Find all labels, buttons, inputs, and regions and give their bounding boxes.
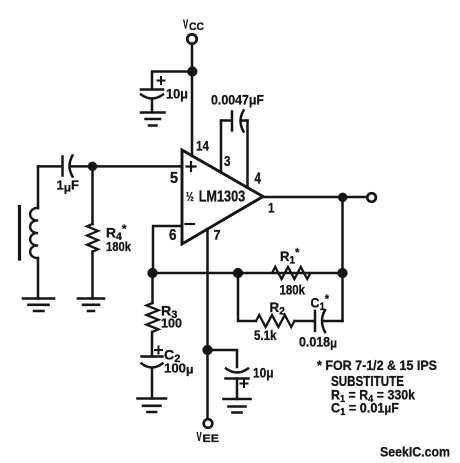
- wire VCC down to pin 14: [191, 44, 194, 156]
- wire pin 6 to feedback: [153, 226, 182, 273]
- svg-text:14: 14: [196, 138, 209, 154]
- wire output: [263, 196, 367, 199]
- resistor R1 180k: [272, 267, 310, 279]
- svg-text:* FOR 7-1/2 & 15 IPS: * FOR 7-1/2 & 15 IPS: [317, 358, 437, 374]
- svg-text:SeekIC.com: SeekIC.com: [380, 445, 450, 460]
- svg-text:0.0047μF: 0.0047μF: [211, 93, 264, 108]
- svg-text:V: V: [183, 18, 189, 32]
- plus sign of C2: [155, 347, 162, 354]
- resistor R3 100: [147, 303, 159, 332]
- plus sign of VEE 10u: [241, 380, 248, 387]
- wire feedback horizontal: [153, 272, 343, 275]
- svg-text:CC: CC: [189, 21, 204, 33]
- node input junction: [88, 162, 97, 171]
- resistor R4 180k: [87, 224, 98, 252]
- wire cap to pin 5: [71, 165, 183, 168]
- svg-text:4: 4: [255, 171, 262, 188]
- plus input marking: [187, 162, 196, 171]
- svg-text:R1*: R1*: [280, 246, 300, 267]
- svg-text:0.018μ: 0.018μ: [299, 335, 337, 351]
- svg-text:10μ: 10μ: [253, 366, 274, 381]
- node output junction: [338, 193, 347, 202]
- wire right rail vertical: [341, 197, 344, 321]
- wire VCC junction to bypass cap: [152, 72, 192, 90]
- capacitor C1 0.018u: [315, 310, 325, 332]
- ground under C2: [138, 399, 167, 413]
- input wire left segment: [38, 165, 62, 168]
- svg-text:180k: 180k: [106, 239, 132, 254]
- capacitor C2 100u: [142, 357, 163, 399]
- terminal VEE: [204, 419, 213, 428]
- svg-text:5.1k: 5.1k: [254, 328, 277, 343]
- node VCC junction: [187, 67, 197, 77]
- head gap bar: [18, 207, 21, 260]
- node pin7 junction: [203, 345, 213, 355]
- wire coil to ground: [37, 258, 40, 299]
- svg-text:LM1303: LM1303: [199, 189, 246, 206]
- capacitor 10u VCC bypass: [141, 88, 163, 91]
- svg-text:5: 5: [170, 170, 178, 187]
- svg-text:EE: EE: [203, 433, 220, 445]
- wire R2 to C1: [295, 320, 314, 323]
- svg-text:7: 7: [214, 227, 221, 243]
- terminal output: [367, 193, 376, 202]
- inductor L1 head coil: [30, 208, 38, 258]
- svg-text:1μF: 1μF: [57, 178, 80, 195]
- ground under coil: [23, 299, 54, 312]
- capacitor 0.0047uF between pin 3 and pin 4: [221, 111, 248, 132]
- ground under VEE 10u: [224, 399, 251, 413]
- node R1 right junction: [338, 268, 348, 278]
- wire R3 top: [151, 273, 154, 303]
- node feedback left junction: [148, 268, 158, 278]
- wire pin 7 down to VEE: [206, 229, 209, 419]
- ground under bypass cap: [141, 113, 165, 126]
- wire R3 to C2: [151, 332, 154, 357]
- svg-text:½: ½: [186, 190, 194, 204]
- svg-text:R2: R2: [270, 299, 286, 318]
- wire R2 branch left: [238, 273, 256, 321]
- node R1 left junction: [233, 268, 243, 278]
- svg-text:6: 6: [169, 227, 177, 244]
- svg-text:3: 3: [224, 153, 231, 170]
- svg-text:V: V: [197, 430, 203, 444]
- svg-text:1: 1: [268, 200, 275, 216]
- svg-text:180k: 180k: [280, 282, 306, 298]
- wire pin 4: [246, 121, 249, 188]
- op-amp U1 1/2 LM1303: [182, 150, 263, 244]
- resistor R2 5.1k: [256, 315, 294, 327]
- wire R4 to ground: [91, 252, 94, 299]
- wire pin 3: [220, 121, 223, 173]
- wire pin7 junction to 10u cap: [208, 350, 238, 367]
- minus input marking: [186, 223, 195, 225]
- capacitor 1uF input coupling: [63, 156, 73, 177]
- terminal VCC: [187, 34, 196, 43]
- ground under R4: [78, 299, 104, 312]
- wire C1 to right rail: [324, 320, 343, 323]
- wire junction to R4: [91, 166, 94, 224]
- svg-text:100: 100: [161, 316, 182, 331]
- capacitor 10u VEE bypass: [226, 369, 249, 400]
- plus sign of 10u bypass: [158, 77, 165, 84]
- svg-text:10μ: 10μ: [166, 87, 188, 102]
- svg-text:100μ: 100μ: [164, 361, 194, 377]
- wire input down to coil: [37, 166, 40, 208]
